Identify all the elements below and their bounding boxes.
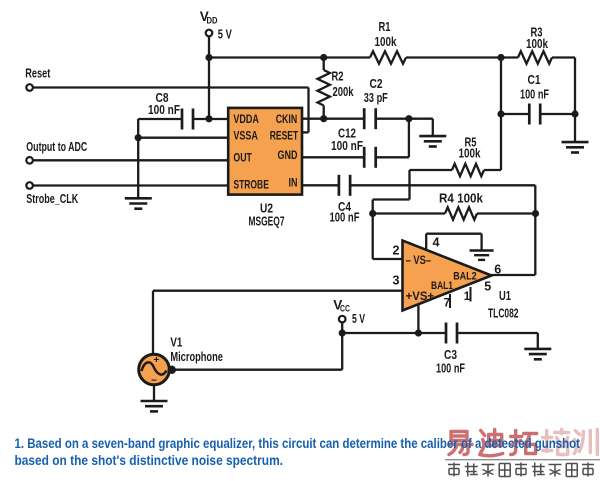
- svg-text:+: +: [154, 355, 160, 366]
- svg-text:CKIN: CKIN: [276, 112, 298, 126]
- svg-text:based on the shot's distinctiv: based on the shot's distinctive noise sp…: [15, 453, 284, 468]
- svg-text:STROBE: STROBE: [233, 177, 269, 191]
- svg-text:5 V: 5 V: [218, 27, 232, 42]
- svg-text:100k: 100k: [375, 34, 398, 49]
- svg-text:−: −: [151, 376, 157, 387]
- svg-text:R2: R2: [332, 68, 344, 83]
- svg-text:– VS–: – VS–: [406, 255, 432, 267]
- svg-text:100 nF: 100 nF: [436, 360, 465, 375]
- svg-text:MSGEQ7: MSGEQ7: [249, 213, 285, 228]
- svg-text:GND: GND: [278, 148, 298, 162]
- svg-text:1: 1: [464, 291, 471, 303]
- svg-text:100 nF: 100 nF: [331, 138, 363, 153]
- svg-text:Strobe_CLK: Strobe_CLK: [26, 191, 78, 206]
- svg-text:33 pF: 33 pF: [364, 90, 388, 105]
- svg-text:Reset: Reset: [25, 65, 50, 80]
- svg-text:R4 100k: R4 100k: [439, 191, 484, 206]
- svg-text:BAL1: BAL1: [431, 280, 453, 292]
- svg-text:TLC082: TLC082: [488, 306, 519, 321]
- svg-text:2: 2: [392, 243, 399, 257]
- svg-text:VDDA: VDDA: [233, 112, 259, 126]
- svg-text:U1: U1: [499, 288, 511, 303]
- svg-text:6: 6: [494, 262, 501, 276]
- svg-text:IN: IN: [289, 175, 298, 189]
- svg-text:5 V: 5 V: [352, 311, 365, 326]
- svg-text:C1: C1: [528, 72, 541, 87]
- svg-text:VSSA: VSSA: [233, 129, 258, 143]
- svg-text:200k: 200k: [333, 84, 355, 99]
- svg-text:Output to ADC: Output to ADC: [26, 139, 87, 154]
- svg-text:BAL2: BAL2: [453, 271, 477, 283]
- svg-text:100k: 100k: [459, 145, 482, 160]
- svg-text:Microphone: Microphone: [170, 349, 223, 364]
- svg-text:R1: R1: [379, 19, 391, 34]
- svg-text:1. Based on a seven-band graph: 1. Based on a seven-band graphic equaliz…: [15, 436, 581, 451]
- svg-text:3: 3: [392, 273, 399, 287]
- svg-text:CC: CC: [340, 304, 350, 315]
- svg-text:4: 4: [433, 235, 440, 249]
- svg-text:OUT: OUT: [233, 150, 252, 164]
- svg-text:RESET: RESET: [270, 129, 299, 143]
- svg-text:100 nF: 100 nF: [330, 209, 360, 224]
- svg-text:DD: DD: [207, 16, 218, 27]
- svg-text:5: 5: [484, 280, 491, 294]
- svg-text:100 nF: 100 nF: [520, 87, 549, 102]
- svg-text:100 nF: 100 nF: [148, 102, 180, 117]
- svg-text:7: 7: [444, 298, 450, 310]
- svg-text:100k: 100k: [526, 36, 549, 51]
- svg-text:V1: V1: [170, 335, 182, 350]
- svg-text:+VS+: +VS+: [406, 291, 435, 303]
